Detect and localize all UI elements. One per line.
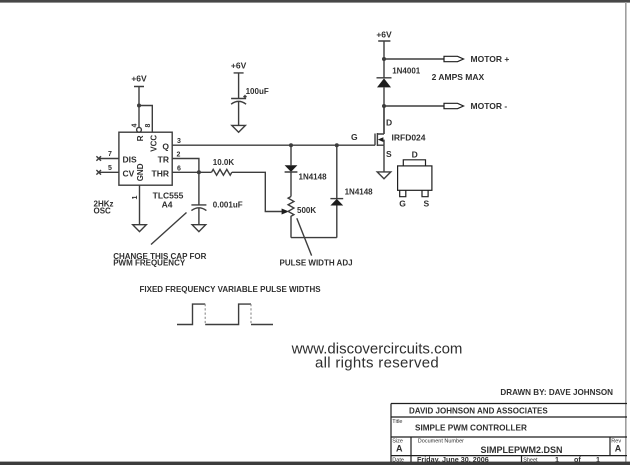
svg-text:1N4148: 1N4148 bbox=[299, 173, 328, 182]
no-connect x pin 7 bbox=[96, 156, 101, 161]
svg-text:Document Number: Document Number bbox=[418, 439, 464, 445]
page top border bar bbox=[0, 0, 630, 3]
svg-text:+6V: +6V bbox=[376, 29, 392, 39]
page right border bbox=[625, 2, 627, 463]
ground under 0.001uF bbox=[192, 225, 206, 232]
svg-text:5: 5 bbox=[108, 165, 112, 172]
svg-text:GND: GND bbox=[136, 163, 145, 181]
svg-text:4: 4 bbox=[132, 124, 139, 128]
wire pot bottom loop bbox=[291, 237, 337, 239]
IC U1 TLC555 bbox=[119, 132, 172, 185]
svg-text:MOTOR -: MOTOR - bbox=[471, 101, 508, 111]
svg-text:DIS: DIS bbox=[123, 155, 138, 165]
svg-text:THR: THR bbox=[152, 168, 169, 178]
ground under pin 1 bbox=[133, 225, 147, 232]
wire TR pin 2 branch bbox=[172, 159, 199, 173]
wire supply to pin 8 bbox=[139, 106, 152, 133]
pot wiper arrow bbox=[282, 209, 289, 215]
pointer line to wiper bbox=[297, 218, 312, 255]
pin 7 DIS wire bbox=[99, 158, 119, 160]
package outline IRFD024 bbox=[398, 149, 432, 208]
svg-text:1: 1 bbox=[555, 455, 559, 464]
svg-text:7: 7 bbox=[108, 151, 112, 158]
svg-text:1N4001: 1N4001 bbox=[392, 67, 421, 76]
capacitor C 0.001uF bbox=[191, 172, 206, 224]
node Q-line junction B bbox=[335, 143, 339, 147]
pointer line to cap bbox=[151, 213, 187, 245]
potentiometer 500K bbox=[288, 197, 316, 238]
svg-text:Sheet: Sheet bbox=[523, 458, 538, 464]
node motor+ junction bbox=[382, 57, 386, 61]
svg-text:PULSE WIDTH ADJ: PULSE WIDTH ADJ bbox=[280, 258, 353, 267]
page bottom border bar bbox=[0, 462, 630, 465]
svg-text:+6V: +6V bbox=[131, 74, 147, 84]
wire THR pin 6 bbox=[172, 171, 211, 173]
connector MOTOR + bbox=[444, 56, 464, 61]
svg-text:SIMPLEPWM2.DSN: SIMPLEPWM2.DSN bbox=[480, 445, 562, 455]
svg-text:R: R bbox=[136, 135, 145, 141]
pin 1 GND wire bbox=[139, 185, 141, 225]
svg-text:TR: TR bbox=[158, 155, 169, 165]
resistor 10.0K bbox=[212, 169, 232, 175]
svg-text:1N4148: 1N4148 bbox=[345, 187, 374, 196]
wire to MOTOR - connector bbox=[384, 105, 444, 107]
+6V supply right bbox=[376, 29, 392, 59]
node motor- junction bbox=[382, 104, 386, 108]
svg-text:S: S bbox=[386, 149, 392, 159]
ground under 100uF bbox=[232, 125, 246, 132]
svg-text:FIXED FREQUENCY VARIABLE PULSE: FIXED FREQUENCY VARIABLE PULSE WIDTHS bbox=[140, 285, 322, 294]
svg-text:DRAWN BY: DAVE JOHNSON: DRAWN BY: DAVE JOHNSON bbox=[500, 388, 613, 397]
svg-text:PWM FREQUENCY: PWM FREQUENCY bbox=[113, 259, 186, 268]
capacitor C 100uF polarized bbox=[231, 99, 246, 126]
svg-text:Title: Title bbox=[392, 419, 402, 425]
svg-text:1: 1 bbox=[132, 196, 139, 200]
wire +6V to pin 4 bbox=[138, 106, 140, 128]
title block bbox=[391, 404, 627, 465]
ground under MOSFET source bbox=[377, 172, 391, 179]
svg-text:D: D bbox=[412, 149, 418, 159]
svg-text:G: G bbox=[399, 198, 406, 208]
svg-text:G: G bbox=[351, 132, 358, 142]
svg-text:+6V: +6V bbox=[231, 60, 247, 70]
svg-text:SIMPLE PWM CONTROLLER: SIMPLE PWM CONTROLLER bbox=[415, 424, 527, 433]
svg-text:100uF: 100uF bbox=[246, 87, 269, 96]
waveform drawing bbox=[177, 304, 273, 324]
svg-text:MOTOR +: MOTOR + bbox=[471, 54, 510, 64]
+6V supply middle bbox=[231, 60, 247, 98]
pin 5 CV wire bbox=[99, 171, 119, 173]
svg-text:D: D bbox=[386, 117, 392, 127]
diode D 1N4148 left bbox=[285, 145, 327, 196]
svg-text:A: A bbox=[615, 444, 622, 454]
svg-text:6: 6 bbox=[177, 165, 181, 172]
svg-text:Q: Q bbox=[162, 141, 169, 151]
node pin4/pin8 supply junction bbox=[137, 104, 141, 108]
svg-text:3: 3 bbox=[177, 138, 181, 145]
node Q-line junction A bbox=[289, 143, 293, 147]
svg-text:OSC: OSC bbox=[94, 206, 112, 215]
svg-text:500K: 500K bbox=[297, 206, 316, 215]
svg-text:2: 2 bbox=[177, 152, 181, 159]
svg-text:IRFD024: IRFD024 bbox=[392, 133, 426, 143]
svg-text:10.0K: 10.0K bbox=[213, 158, 235, 167]
wire Q output pin 3 to gate bbox=[172, 144, 375, 146]
svg-text:A: A bbox=[396, 444, 403, 454]
svg-text:VCC: VCC bbox=[150, 135, 159, 152]
connector MOTOR - bbox=[444, 103, 464, 108]
diode D 1N4148 right bbox=[330, 145, 373, 237]
no-connect x pin 5 bbox=[96, 170, 101, 175]
svg-text:A4: A4 bbox=[162, 200, 173, 210]
wire resistor to pot wiper bbox=[232, 172, 282, 211]
svg-text:DAVID JOHNSON AND ASSOCIATES: DAVID JOHNSON AND ASSOCIATES bbox=[409, 407, 548, 416]
svg-text:CV: CV bbox=[123, 168, 135, 178]
svg-text:S: S bbox=[423, 198, 429, 208]
svg-text:1: 1 bbox=[596, 455, 600, 464]
+6V supply left bbox=[131, 74, 147, 106]
node TR/THR/cap junction bbox=[197, 170, 201, 174]
svg-text:0.001uF: 0.001uF bbox=[213, 201, 243, 210]
svg-text:Date: Date bbox=[392, 458, 404, 464]
pin 4 inversion bubble bbox=[137, 127, 142, 132]
svg-text:of: of bbox=[574, 455, 581, 464]
svg-text:Friday, June 30, 2006: Friday, June 30, 2006 bbox=[417, 455, 489, 464]
svg-text:all rights reserved: all rights reserved bbox=[315, 355, 439, 372]
svg-text:8: 8 bbox=[145, 124, 152, 128]
transistor Q IRFD024 n-MOSFET bbox=[351, 106, 426, 172]
wire to MOTOR + connector bbox=[384, 58, 444, 60]
diode D 1N4001 bbox=[377, 59, 421, 106]
svg-text:2 AMPS MAX: 2 AMPS MAX bbox=[432, 72, 485, 82]
